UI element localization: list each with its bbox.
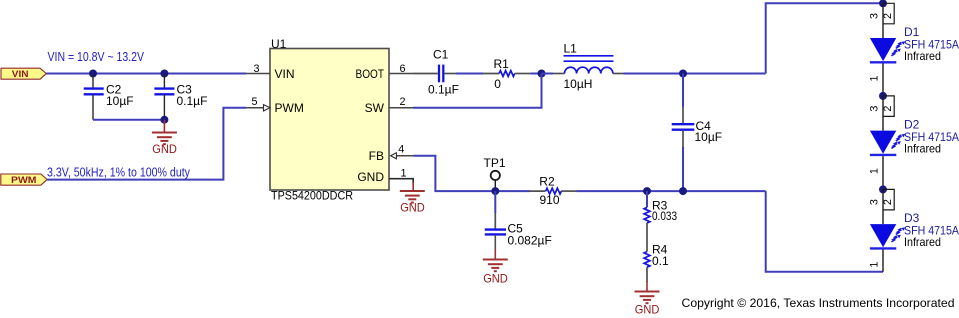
svg-text:0.033: 0.033 [652, 209, 677, 223]
svg-text:GND: GND [483, 272, 508, 286]
node junction D2-D3 [879, 185, 887, 193]
svg-text:3.3V, 50kHz, 1% to 100% duty: 3.3V, 50kHz, 1% to 100% duty [47, 165, 190, 180]
op-amp U1 body TPS54200DDCR [270, 37, 389, 202]
node junction R3 top [643, 187, 651, 195]
svg-text:C1: C1 [433, 48, 449, 62]
test point TP1 [484, 156, 506, 188]
wire output riser to LED top rail [766, 3, 883, 73]
wire VIN net horizontal [46, 73, 246, 75]
resistor R1 [483, 57, 542, 91]
LED D3 package pins 3/2 bridge [869, 189, 895, 210]
svg-text:910: 910 [540, 193, 560, 207]
wire SW net [413, 74, 542, 108]
pin 6 BOOT lead [389, 63, 413, 75]
LED D2 package pins 3/2 bridge [869, 96, 895, 117]
capacitor C4 [672, 74, 722, 192]
node junction C2 tap [89, 70, 97, 78]
capacitor C5 [485, 191, 552, 250]
wire C2-C3 bottom connector [93, 119, 164, 121]
resistor R4 [644, 243, 669, 282]
wire PWM net [47, 108, 246, 180]
svg-text:0.082µF: 0.082µF [508, 234, 552, 248]
svg-text:R1: R1 [494, 57, 510, 71]
svg-text:0.1µF: 0.1µF [177, 94, 208, 108]
capacitor C3 [154, 74, 207, 120]
wire FB net to sense node [577, 190, 766, 192]
pin 5 PWM lead with input arrow [246, 96, 270, 111]
svg-text:0: 0 [494, 77, 501, 91]
LED D2 SFH 4715A [868, 96, 959, 189]
svg-text:U1: U1 [271, 37, 287, 51]
resistor R2 [529, 175, 577, 208]
svg-text:L1: L1 [564, 42, 578, 56]
svg-text:10µF: 10µF [106, 94, 134, 108]
node junction TP1/C5 [491, 187, 499, 195]
ground GND C5 [483, 249, 508, 286]
svg-text:1: 1 [868, 75, 880, 81]
svg-text:VIN: VIN [12, 69, 29, 80]
capacitor C2 [84, 74, 134, 120]
svg-text:3: 3 [869, 13, 881, 19]
node junction C3 tap [160, 70, 168, 78]
svg-text:BOOT: BOOT [356, 67, 385, 81]
svg-text:Infrared: Infrared [904, 49, 941, 63]
inductor L1 [542, 42, 614, 91]
svg-text:TP1: TP1 [484, 156, 506, 170]
svg-text:10µF: 10µF [695, 130, 723, 144]
node junction C4 top [679, 70, 687, 78]
svg-text:Infrared: Infrared [904, 235, 941, 249]
svg-text:PWM: PWM [11, 175, 37, 186]
svg-text:0.1: 0.1 [652, 254, 669, 268]
svg-text:4: 4 [398, 143, 404, 155]
pin 4 FB lead with input arrow [391, 143, 414, 159]
port tag PWM [1, 174, 47, 186]
ground GND R4 [635, 281, 660, 317]
svg-text:6: 6 [400, 63, 406, 75]
svg-text:Infrared: Infrared [904, 142, 941, 156]
wire FB net from pin to TP1 [414, 156, 531, 191]
svg-text:TPS54200DDCR: TPS54200DDCR [271, 188, 353, 202]
LED D1 package pins 3/2 bridge [869, 3, 895, 24]
svg-text:VIN = 10.8V ~ 13.2V: VIN = 10.8V ~ 13.2V [48, 49, 145, 64]
svg-text:2: 2 [400, 96, 406, 108]
ground GND U1 pin1 [400, 182, 425, 215]
LED D3 SFH 4715A [868, 189, 959, 271]
svg-text:10µH: 10µH [564, 77, 593, 91]
LED D1 SFH 4715A [868, 3, 959, 96]
svg-text:SW: SW [365, 101, 385, 115]
pin 2 SW lead [389, 96, 413, 108]
node junction input caps ground [160, 116, 168, 124]
svg-text:5: 5 [252, 96, 258, 108]
svg-text:0.1µF: 0.1µF [428, 83, 459, 97]
svg-text:1: 1 [868, 262, 880, 268]
svg-text:1: 1 [401, 168, 407, 180]
svg-text:GND: GND [635, 303, 660, 317]
svg-text:GND: GND [357, 170, 384, 184]
wire L1 to output [613, 73, 624, 75]
svg-text:1: 1 [868, 168, 880, 174]
node junction C4 bottom [679, 187, 687, 195]
svg-text:PWM: PWM [275, 101, 304, 115]
svg-text:GND: GND [152, 142, 177, 156]
resistor R3 [644, 191, 677, 252]
pin 1 GND lead [389, 168, 413, 185]
svg-text:3: 3 [869, 106, 881, 112]
svg-text:VIN: VIN [275, 67, 295, 81]
svg-text:Copyright © 2016, Texas Instru: Copyright © 2016, Texas Instruments Inco… [682, 296, 955, 310]
ground GND input caps [152, 120, 177, 156]
node junction D1-D2 [879, 92, 887, 100]
pin 3 VIN lead [246, 63, 270, 75]
svg-text:FB: FB [369, 149, 384, 163]
node junction LED top [879, 0, 887, 7]
capacitor C1 [413, 48, 483, 97]
svg-text:3: 3 [254, 63, 260, 75]
port tag VIN [1, 68, 46, 80]
svg-text:R2: R2 [539, 175, 555, 189]
wire LED return riser [766, 191, 883, 272]
node junction SW/L1 [538, 70, 546, 78]
svg-text:GND: GND [400, 201, 425, 215]
svg-text:3: 3 [869, 199, 881, 205]
